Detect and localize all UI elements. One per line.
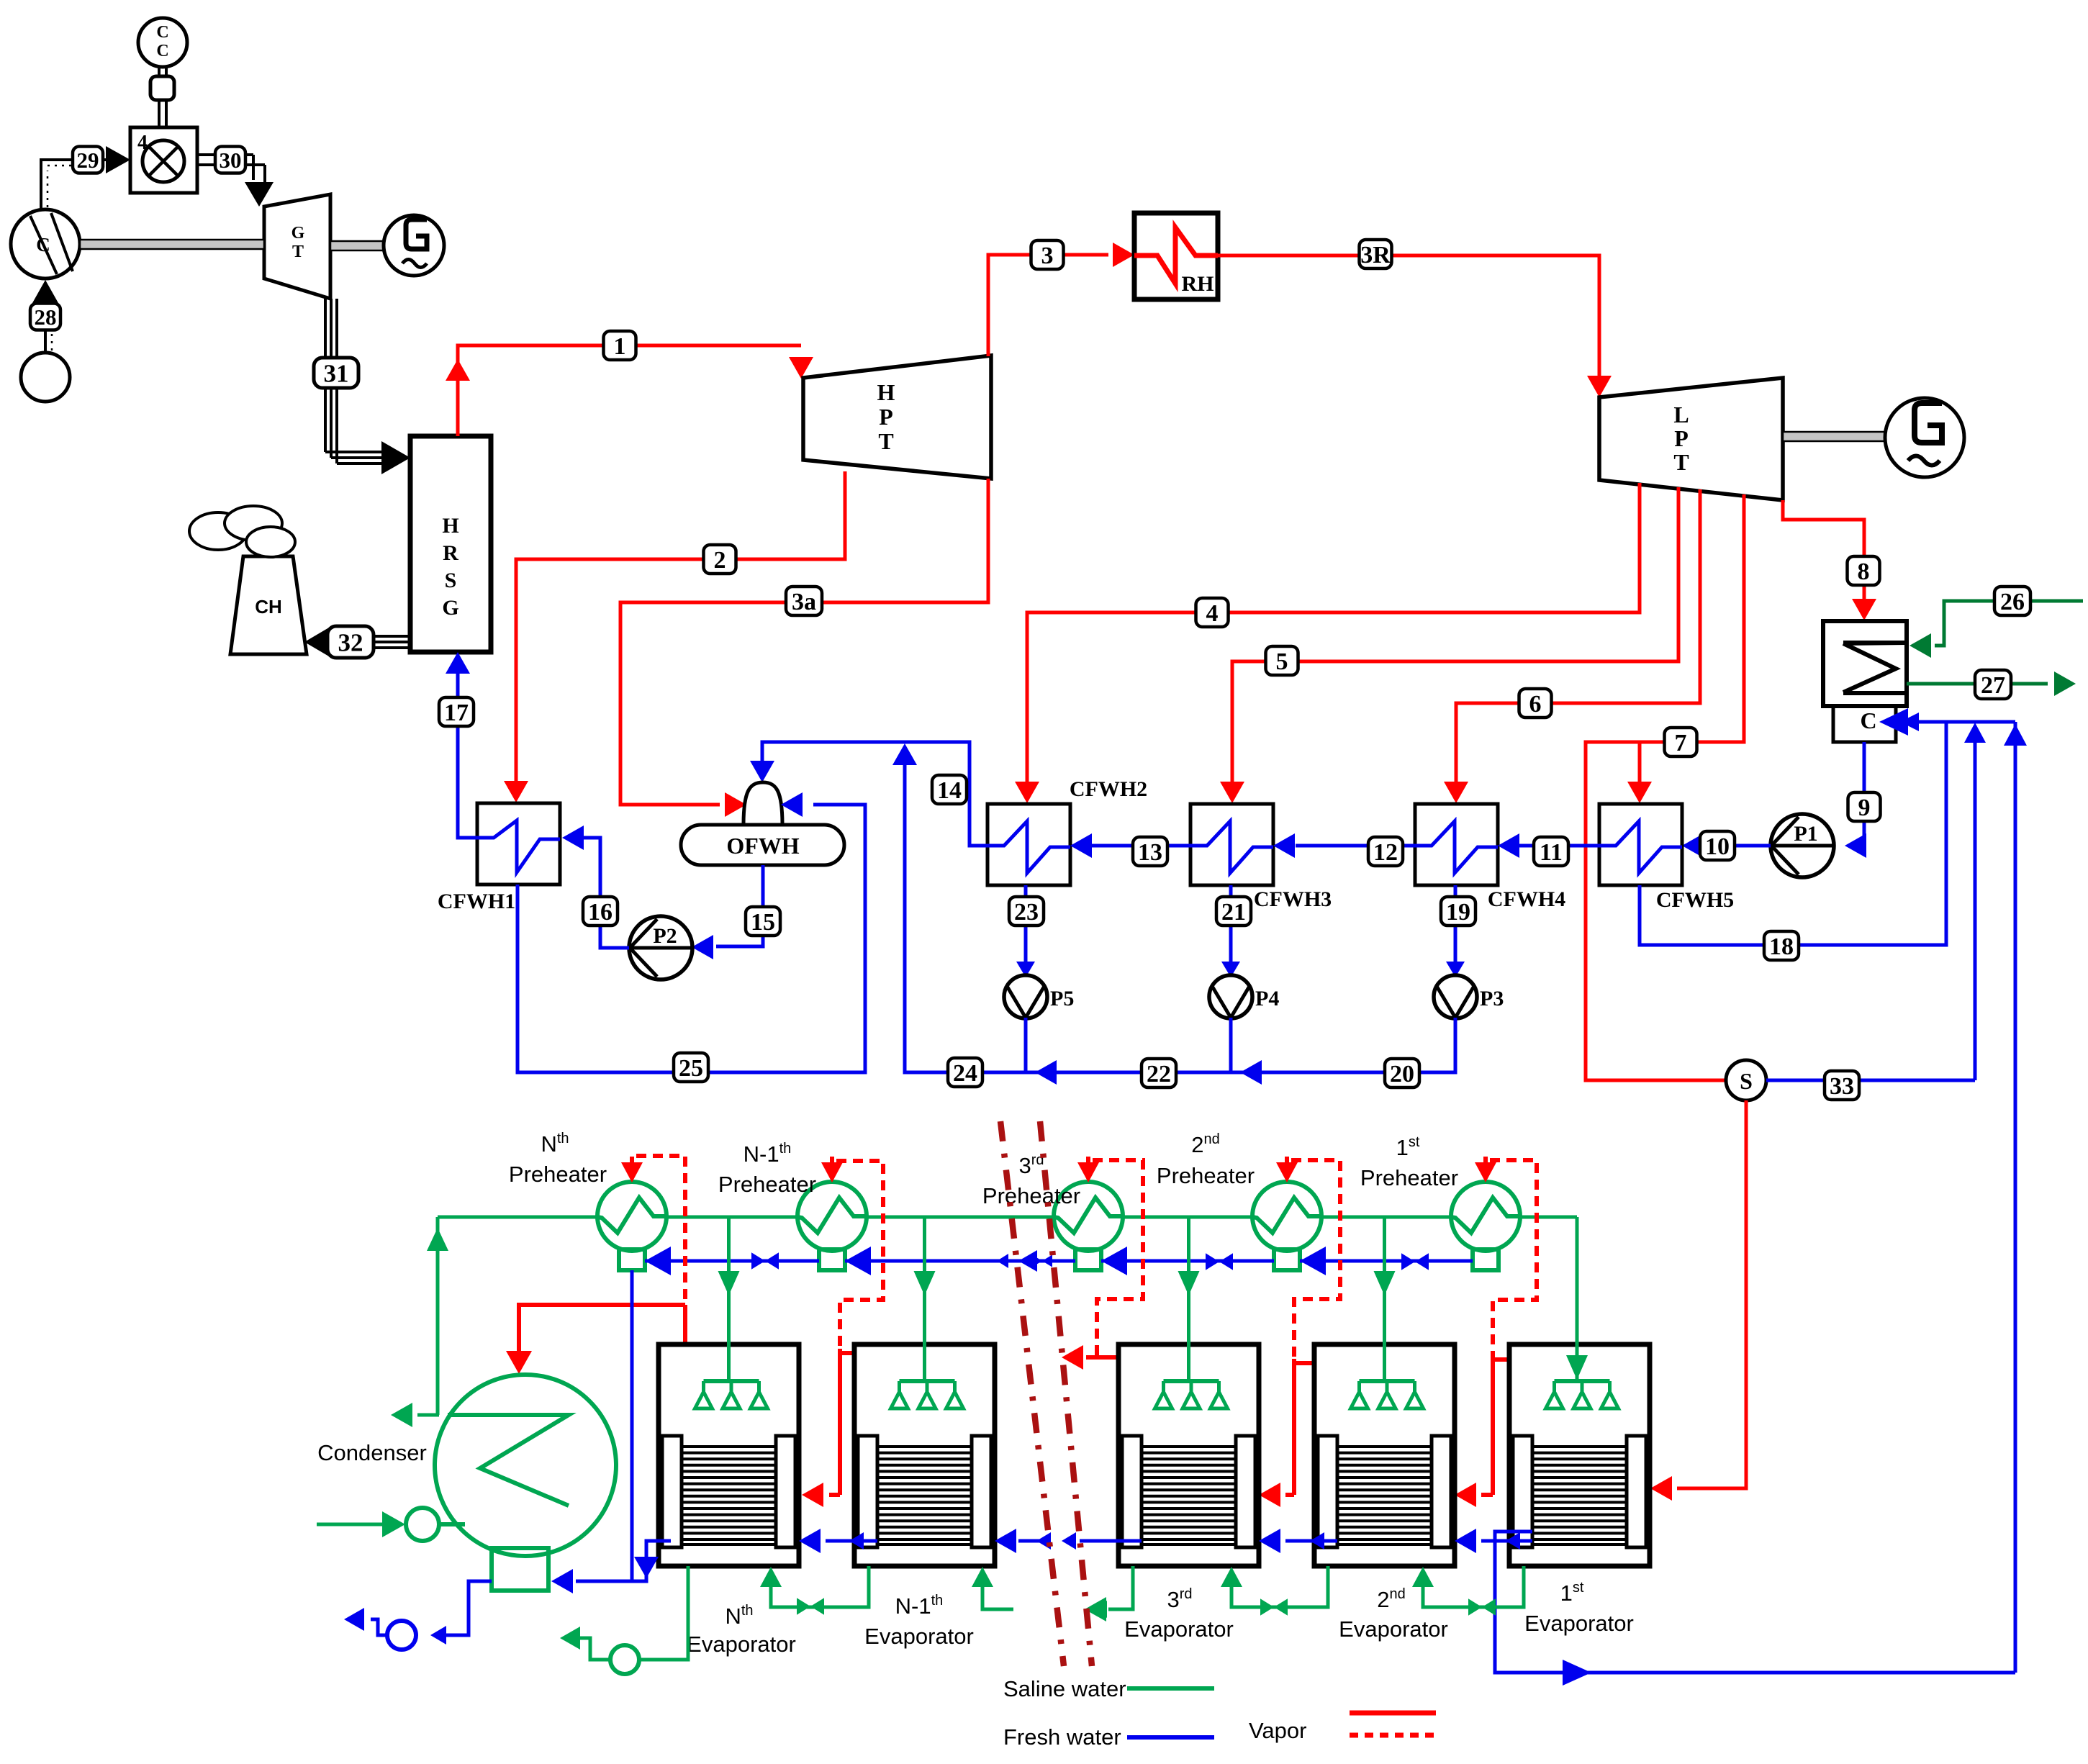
saline riser to header — [427, 1217, 448, 1415]
stream 28 label — [30, 304, 60, 330]
stream 10 line — [1682, 833, 1771, 858]
svg-text:Condenser: Condenser — [317, 1440, 427, 1465]
preheater 2nd label — [1157, 1131, 1255, 1188]
evaporator 1st label — [1524, 1580, 1634, 1636]
saline feed evap 1 — [914, 1217, 936, 1381]
sump outlet line — [430, 1581, 492, 1645]
pump P4 — [1209, 975, 1279, 1018]
stream 31 label — [314, 358, 358, 388]
stream 26 line — [1910, 601, 2083, 658]
seawater inlet line — [317, 1511, 405, 1537]
MED fresh water return riser — [2004, 722, 2027, 1673]
svg-text:15: 15 — [751, 909, 775, 936]
svg-text:9: 9 — [1858, 795, 1871, 821]
brine evap2 to evap3 — [1221, 1566, 1328, 1616]
stream 16 line — [562, 826, 629, 948]
vapor loop 2nd — [1259, 1160, 1340, 1507]
stream 32 lines — [318, 636, 410, 648]
svg-text:P: P — [1674, 425, 1689, 451]
stream 20 label — [1385, 1059, 1419, 1087]
evaporator 1 vessel — [854, 1344, 995, 1566]
seawater inlet pump — [406, 1508, 439, 1541]
OFWH body — [681, 825, 844, 865]
svg-text:13: 13 — [1138, 839, 1162, 866]
preheater Nth label — [509, 1131, 607, 1187]
stream 25 line — [518, 805, 865, 1072]
stream 1 label — [604, 331, 636, 360]
svg-text:CFWH2: CFWH2 — [1070, 777, 1147, 801]
svg-text:Evaporator: Evaporator — [1524, 1611, 1634, 1636]
svg-text:21: 21 — [1221, 899, 1246, 926]
stream 2 line — [504, 471, 845, 802]
svg-text:C: C — [1860, 707, 1876, 733]
distillate out — [344, 1608, 388, 1635]
chimney CH — [230, 556, 307, 654]
stream 14 label — [932, 775, 967, 804]
stream 12 label — [1368, 837, 1403, 866]
stream 31 lines — [325, 299, 389, 463]
svg-text:Preheater: Preheater — [1360, 1165, 1458, 1190]
evaporator 3 vessel — [1314, 1344, 1455, 1566]
svg-text:OFWH: OFWH — [726, 833, 799, 859]
air inlet circle — [21, 353, 70, 402]
svg-text:R: R — [443, 541, 458, 565]
CFWH2 box — [987, 777, 1147, 885]
svg-text:18: 18 — [1769, 933, 1794, 960]
svg-text:32: 32 — [338, 628, 363, 656]
svg-text:P4: P4 — [1255, 987, 1279, 1010]
svg-text:T: T — [292, 243, 304, 261]
pump P2 — [629, 916, 692, 980]
stream 25 label — [674, 1053, 708, 1082]
stream 21 label — [1216, 897, 1251, 926]
stream 17 line — [446, 652, 477, 838]
distillate evap1 to evap2 — [1455, 1529, 1532, 1553]
evaporator Nth label — [687, 1603, 796, 1657]
stream 11 line — [1498, 833, 1599, 858]
steam to MED line — [1650, 1100, 1746, 1501]
svg-text:1: 1 — [614, 333, 626, 360]
HPT turbine — [803, 356, 991, 479]
evapN distillate to sump — [551, 1541, 671, 1593]
stream 22 label — [1142, 1059, 1176, 1087]
combustor box 4 — [130, 127, 197, 193]
hotwell inlet arrow — [1879, 708, 1919, 736]
stream 4 line — [1015, 483, 1640, 803]
preheater distillate line — [645, 1247, 1473, 1275]
svg-text:Preheater: Preheater — [509, 1162, 607, 1187]
stream 6 label — [1519, 689, 1552, 718]
svg-text:17: 17 — [444, 700, 469, 726]
stream 2 label — [704, 545, 736, 574]
CFWH5 box — [1599, 804, 1734, 912]
evaporator 2 vessel — [1118, 1344, 1259, 1566]
generator G1 — [384, 215, 444, 276]
seawater outlet line — [391, 1403, 439, 1427]
svg-text:Preheater: Preheater — [1157, 1163, 1255, 1188]
stream 19 label — [1441, 897, 1475, 926]
stream 3 label — [1031, 240, 1064, 269]
svg-text:11: 11 — [1540, 839, 1563, 866]
preheater line valves — [751, 1252, 1429, 1270]
shaft GT-generator — [330, 241, 384, 250]
fresh water collector — [1495, 1532, 2015, 1686]
svg-text:33: 33 — [1830, 1073, 1854, 1100]
stream 30 lines — [197, 155, 265, 183]
hotwell C box — [1833, 706, 1896, 742]
distillate evapN-1 to evapN — [799, 1529, 877, 1553]
stream 10 label — [1700, 831, 1735, 860]
svg-text:P3: P3 — [1480, 987, 1504, 1010]
stream 12 line — [1273, 833, 1415, 858]
exhaust arrow into HRSG — [381, 441, 410, 474]
vapor loop 1st — [1455, 1160, 1537, 1507]
stream 21 line — [1221, 885, 1240, 977]
distillate pump — [387, 1621, 416, 1650]
stream 15 label — [746, 907, 780, 936]
seawater into condenser — [439, 1522, 465, 1526]
condenser HX box — [1823, 621, 1907, 706]
svg-text:CFWH1: CFWH1 — [438, 890, 515, 913]
HRSG box — [410, 436, 491, 652]
svg-text:7: 7 — [1675, 730, 1687, 756]
pump P1 — [1771, 814, 1834, 877]
distillate break to evapN-1 — [995, 1529, 1051, 1553]
svg-text:27: 27 — [1981, 672, 2005, 699]
stream 9 label — [1848, 792, 1881, 821]
saline feed evap 0 — [718, 1217, 740, 1381]
preheater N-1th label — [718, 1141, 816, 1197]
combustion chamber CC circle — [138, 18, 187, 67]
svg-text:23: 23 — [1014, 899, 1039, 926]
stream 32 label — [327, 626, 374, 658]
preheaterN drain to sump — [631, 1270, 634, 1581]
distillate evap2 to evap3 — [1259, 1529, 1337, 1553]
brine break to evapN-1 — [972, 1567, 1013, 1609]
svg-text:25: 25 — [679, 1055, 703, 1082]
stream 18 label — [1764, 931, 1799, 960]
svg-text:Preheater: Preheater — [982, 1183, 1080, 1208]
condenser sump box — [492, 1548, 548, 1591]
svg-text:S: S — [445, 569, 457, 592]
vapor loop Nth — [506, 1156, 685, 1374]
brine blowdown from evapN — [639, 1566, 688, 1660]
shaft compressor-GT — [80, 240, 264, 249]
svg-text:CFWH4: CFWH4 — [1488, 887, 1565, 911]
preheater 1 circle — [797, 1157, 867, 1270]
svg-text:19: 19 — [1446, 899, 1470, 926]
stream 7 label — [1665, 728, 1697, 756]
CFWH3 box — [1190, 804, 1332, 911]
svg-text:P1: P1 — [1794, 822, 1817, 846]
stream 4 label — [1196, 598, 1229, 627]
svg-text:16: 16 — [588, 899, 613, 926]
OFWH dome — [744, 782, 782, 825]
stream 3R line — [1218, 255, 1612, 397]
svg-text:P: P — [879, 404, 893, 430]
shaft LPT-generator — [1783, 432, 1885, 441]
stream 3a line — [620, 479, 988, 817]
svg-text:4: 4 — [1206, 600, 1219, 627]
stream 23 line — [1016, 885, 1035, 977]
svg-text:P2: P2 — [653, 924, 677, 948]
LPT turbine — [1599, 378, 1783, 500]
stream 3 line — [988, 243, 1134, 356]
svg-text:6: 6 — [1529, 691, 1542, 718]
hotwell inlet header — [1911, 720, 2015, 724]
stream 7 line — [1586, 494, 1744, 1080]
svg-text:Preheater: Preheater — [718, 1172, 816, 1197]
stream 8 line — [1783, 500, 1876, 620]
legend vapor — [1249, 1713, 1436, 1743]
stream 33 label — [1825, 1071, 1859, 1100]
svg-text:S: S — [1740, 1068, 1753, 1094]
brine evapN-1 to evapN — [760, 1566, 869, 1615]
CFWH5 drain 18 — [1640, 722, 1946, 945]
svg-text:12: 12 — [1373, 839, 1398, 866]
pump P5 — [1004, 975, 1074, 1018]
svg-text:CFWH5: CFWH5 — [1656, 888, 1734, 912]
generator G2 — [1885, 398, 1964, 477]
svg-text:CH: CH — [255, 596, 282, 618]
MED condenser circle — [435, 1375, 616, 1556]
saline feed evap 3 — [1374, 1217, 1396, 1381]
CFWH4 box — [1415, 804, 1565, 911]
drain line 20-22-24 — [892, 743, 1455, 1085]
svg-text:H: H — [877, 379, 895, 405]
MED condenser label — [317, 1440, 427, 1465]
OFWH inlet blue arrow — [781, 792, 803, 817]
stream 14 line — [750, 742, 987, 846]
svg-text:Evaporator: Evaporator — [864, 1624, 974, 1649]
stream 13 label — [1133, 837, 1167, 866]
stream 29 line — [41, 160, 108, 209]
stream 29 label — [73, 147, 103, 173]
compressor C — [11, 209, 80, 279]
svg-text:RH: RH — [1182, 272, 1214, 296]
condenser vapor inlet — [518, 1373, 520, 1375]
svg-text:C: C — [156, 42, 168, 60]
stream 13 line — [1070, 833, 1190, 858]
distillate evap3 to break — [1062, 1532, 1142, 1550]
preheater 3 circle — [1252, 1157, 1321, 1270]
svg-text:T: T — [1673, 449, 1689, 475]
evaporator 0 vessel — [659, 1344, 799, 1566]
stream 16 label — [583, 897, 618, 926]
stream 28 line — [45, 302, 52, 353]
stream 11 label — [1534, 837, 1568, 866]
splitter S — [1726, 1060, 1766, 1100]
stream 17 label — [439, 697, 474, 726]
svg-text:T: T — [878, 428, 893, 454]
svg-text:Saline water: Saline water — [1003, 1676, 1126, 1701]
svg-text:3a: 3a — [792, 589, 816, 615]
CC connector valve — [150, 67, 174, 127]
stream 5 line — [1220, 487, 1678, 803]
brine blowdown pump — [610, 1645, 639, 1674]
svg-text:Evaporator: Evaporator — [1124, 1616, 1234, 1642]
svg-text:H: H — [442, 514, 458, 538]
stream 28 arrow — [32, 280, 58, 303]
stream 3a label — [786, 587, 822, 615]
evaporator 2nd label — [1339, 1586, 1448, 1642]
svg-text:Evaporator: Evaporator — [1339, 1616, 1448, 1642]
stream 29 arrow line — [104, 146, 130, 173]
stream 27 label — [1975, 670, 2011, 699]
svg-text:C: C — [36, 234, 50, 255]
stream 27 line — [1907, 671, 2076, 696]
brine blowdown out — [560, 1627, 611, 1660]
svg-text:26: 26 — [2000, 589, 2025, 615]
vapor loop 3rd — [1062, 1160, 1143, 1370]
preheater 4 circle — [1451, 1157, 1520, 1270]
stream 1 line — [446, 345, 813, 436]
HRSG text — [442, 514, 458, 620]
svg-text:CFWH3: CFWH3 — [1254, 887, 1332, 911]
evaporator 3rd label — [1124, 1586, 1234, 1642]
svg-text:30: 30 — [220, 148, 242, 173]
stream 19 line — [1446, 885, 1465, 977]
preheater 1st label — [1360, 1134, 1458, 1190]
vapor loop N-1th — [802, 1161, 883, 1507]
svg-text:Vapor: Vapor — [1249, 1718, 1306, 1743]
evaporator N-1th label — [864, 1593, 974, 1649]
svg-text:3: 3 — [1041, 243, 1054, 269]
svg-text:20: 20 — [1390, 1061, 1414, 1087]
svg-text:14: 14 — [937, 777, 962, 804]
preheater 2 circle — [1054, 1157, 1123, 1270]
svg-text:C: C — [156, 23, 168, 42]
saline feed evap 1st — [1566, 1217, 1588, 1381]
stream 32 arrow — [304, 628, 329, 656]
brine evap3 to break — [1085, 1566, 1133, 1621]
stream 6 line — [1444, 489, 1700, 803]
preheater 3rd label — [982, 1152, 1080, 1208]
stream 9 line — [1845, 742, 1866, 858]
svg-text:P5: P5 — [1050, 987, 1074, 1010]
gas turbine GT — [264, 194, 330, 299]
stream 23 label — [1009, 897, 1044, 926]
stream 24 label — [948, 1058, 982, 1087]
svg-text:G: G — [291, 224, 305, 243]
evaporator 4 vessel — [1509, 1344, 1650, 1566]
svg-text:8: 8 — [1858, 558, 1870, 585]
svg-text:Evaporator: Evaporator — [687, 1632, 796, 1657]
saline feed evap 2 — [1178, 1217, 1200, 1381]
stream 30 arrow — [245, 182, 274, 207]
reheater RH — [1134, 213, 1218, 299]
svg-text:22: 22 — [1147, 1061, 1171, 1087]
pump P3 — [1434, 975, 1504, 1018]
stream 8 label — [1848, 556, 1880, 585]
MED condenser coil — [448, 1415, 569, 1506]
preheater 0 circle — [597, 1157, 666, 1270]
stream 30 label — [215, 147, 245, 173]
stream 26 label — [1994, 587, 2030, 615]
chimney smoke clouds — [189, 506, 295, 557]
svg-text:28: 28 — [35, 304, 57, 330]
svg-text:L: L — [1673, 402, 1689, 428]
CFWH1 box — [438, 803, 560, 913]
svg-text:10: 10 — [1705, 833, 1730, 860]
brine evap1 to evap2 — [1412, 1566, 1524, 1616]
system break lines — [1000, 1121, 1092, 1666]
svg-text:29: 29 — [77, 148, 99, 173]
svg-text:24: 24 — [953, 1060, 977, 1087]
svg-text:3R: 3R — [1360, 242, 1391, 268]
legend fresh water — [1003, 1724, 1214, 1750]
stream 33 line — [1766, 723, 1986, 1080]
stream 15 line — [692, 865, 763, 959]
stream 3R label — [1360, 240, 1392, 268]
legend saline water — [1003, 1676, 1214, 1701]
stream 5 label — [1266, 646, 1298, 675]
svg-text:31: 31 — [324, 359, 349, 387]
svg-text:5: 5 — [1276, 648, 1288, 675]
svg-text:Fresh water: Fresh water — [1003, 1724, 1121, 1750]
svg-text:G: G — [442, 596, 458, 620]
svg-text:2: 2 — [714, 547, 726, 574]
saline main header — [438, 1216, 1577, 1219]
